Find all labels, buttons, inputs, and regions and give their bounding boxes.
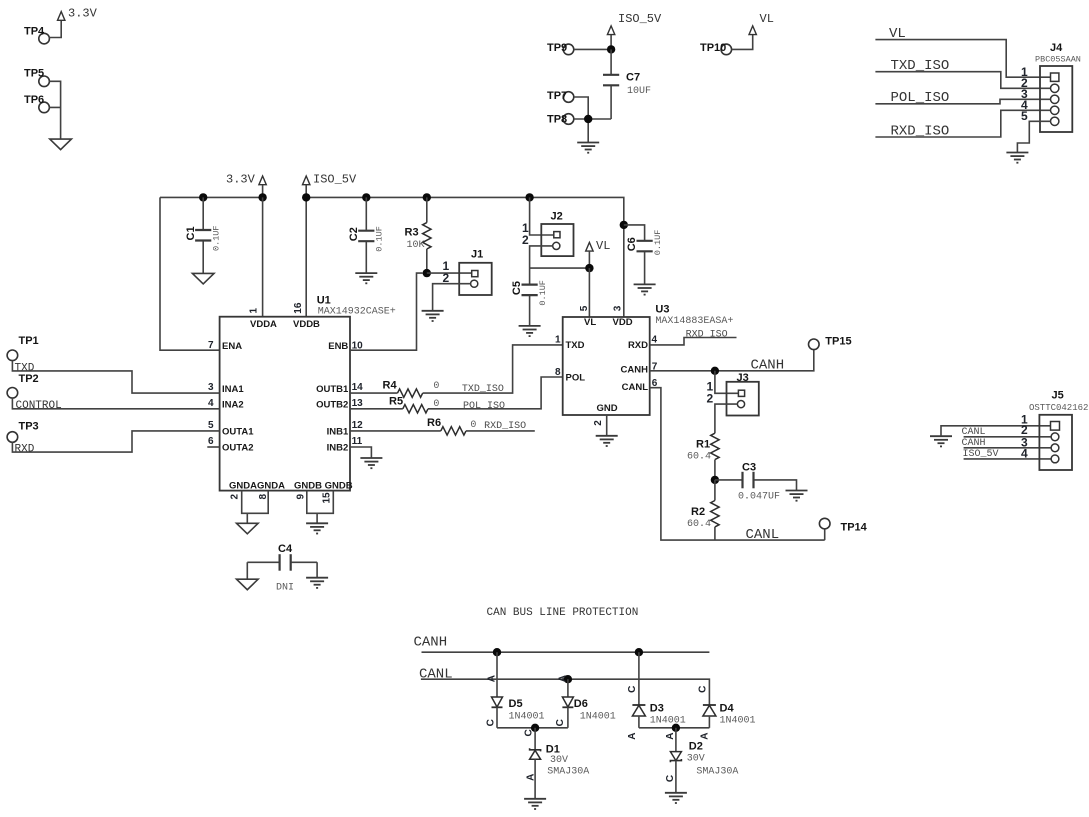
wire J5 pin 1 to ground (941, 426, 1051, 436)
svg-text:0.1UF: 0.1UF (653, 230, 663, 256)
svg-text:15: 15 (322, 492, 333, 504)
ground (GNDA) (237, 523, 259, 534)
svg-text:0: 0 (470, 420, 476, 431)
resistor R4 (350, 345, 563, 397)
wire TP7/TP8 to ground node (574, 97, 611, 143)
svg-text:D2: D2 (689, 740, 703, 752)
power symbol VL (U3) (586, 239, 611, 253)
junction dot D5/CANH (493, 648, 501, 656)
power symbol 3.3V (58, 7, 98, 21)
svg-text:INB1: INB1 (327, 426, 349, 437)
svg-text:POL: POL (566, 372, 586, 383)
svg-text:0.1UF: 0.1UF (212, 225, 222, 251)
svg-text:GNDAGNDA: GNDAGNDA (229, 480, 285, 491)
junction dot C5/J2 (525, 193, 533, 201)
wire TXD_ISO to J4 pin 2 (875, 72, 1050, 89)
svg-text:R5: R5 (389, 395, 403, 407)
svg-text:POL_ISO: POL_ISO (463, 401, 505, 412)
junction dot TP7/TP8 (584, 115, 592, 123)
power symbol ISO_5V (U1 rail) (303, 172, 358, 186)
svg-text:CANH: CANH (751, 358, 785, 374)
svg-text:CANH: CANH (414, 634, 448, 650)
svg-text:GND: GND (597, 403, 618, 414)
connector J3 (727, 372, 759, 416)
wire INB2 to ground (350, 447, 371, 458)
svg-text:0.1UF: 0.1UF (375, 226, 385, 252)
wire TP9 to ISO_5V node (574, 35, 611, 50)
svg-text:2: 2 (230, 494, 241, 500)
capacitor C4 (247, 543, 317, 594)
svg-text:VDDB: VDDB (293, 319, 320, 330)
svg-text:A: A (627, 732, 638, 739)
svg-text:R3: R3 (405, 226, 419, 238)
ground (J5 pin 1) (930, 436, 952, 446)
svg-text:8: 8 (258, 494, 269, 500)
ground (C5) (519, 326, 541, 336)
U1 pin 6 stub (207, 446, 219, 448)
capacitor C5 (511, 280, 548, 326)
wire CANL from U3 pin 6 (650, 388, 825, 540)
svg-text:J4: J4 (1050, 42, 1063, 54)
svg-text:16: 16 (293, 302, 304, 314)
ground (TP5/TP6) (50, 139, 72, 150)
wire GNDB pins to ground (307, 491, 334, 524)
svg-text:OSTTC042162: OSTTC042162 (1029, 403, 1088, 413)
TVS diode D1 (530, 728, 590, 799)
svg-text:VDDA: VDDA (250, 319, 277, 330)
ground (D1) (524, 799, 546, 809)
svg-text:D1: D1 (546, 744, 560, 756)
capacitor C1 (185, 197, 222, 273)
svg-text:GNDB GNDB: GNDB GNDB (294, 480, 353, 491)
resistor R1 (687, 433, 719, 480)
svg-text:INA2: INA2 (222, 400, 244, 411)
ground (GNDB) (306, 523, 328, 533)
svg-text:CANH: CANH (621, 364, 649, 375)
ground (J1) (422, 311, 444, 321)
svg-text:OUTB2: OUTB2 (316, 400, 348, 411)
svg-text:VL: VL (596, 239, 610, 253)
wire J5 pin 2 (964, 436, 1052, 438)
svg-text:TP8: TP8 (547, 114, 567, 126)
svg-text:RXD: RXD (628, 340, 648, 351)
svg-text:TXD: TXD (566, 340, 585, 351)
ground (U3 GND) (596, 436, 618, 446)
svg-text:0.047UF: 0.047UF (738, 491, 780, 502)
svg-text:5: 5 (579, 305, 590, 311)
svg-text:TP3: TP3 (19, 420, 39, 432)
test point TP10 (700, 42, 732, 55)
svg-text:A: A (699, 732, 710, 739)
resistor R6 (350, 417, 535, 435)
svg-text:3.3V: 3.3V (226, 172, 256, 186)
power symbol VL (top) (749, 12, 774, 35)
svg-text:6: 6 (208, 436, 214, 447)
svg-text:OUTA1: OUTA1 (222, 426, 254, 437)
svg-text:2: 2 (522, 233, 529, 247)
svg-text:RXD_ISO: RXD_ISO (484, 421, 526, 432)
capacitor C7 (603, 49, 651, 119)
diode D5 (492, 652, 545, 728)
svg-text:VL: VL (760, 12, 774, 26)
svg-text:C6: C6 (626, 237, 638, 251)
svg-text:1: 1 (555, 335, 561, 346)
svg-text:C5: C5 (511, 281, 523, 295)
svg-text:OUTB1: OUTB1 (316, 384, 349, 395)
resistor R3 (405, 197, 431, 273)
wire POL_ISO to J4 pin 3 (875, 99, 1050, 104)
wire CANL (protection) (421, 679, 710, 705)
wire RXD to OUTA1 (12, 431, 219, 452)
wire U3 GND to ground (606, 415, 608, 436)
svg-text:D4: D4 (720, 702, 735, 714)
svg-text:3.3V: 3.3V (68, 7, 98, 21)
test point TP3 (7, 420, 39, 442)
svg-text:J3: J3 (737, 372, 749, 384)
wire J2 pin 1 (530, 197, 554, 235)
svg-text:10K: 10K (407, 240, 425, 251)
svg-text:R2: R2 (691, 506, 705, 518)
connector J4 (1035, 42, 1081, 132)
svg-text:U1: U1 (317, 294, 331, 306)
svg-text:CANL: CANL (419, 667, 453, 683)
test point TP15 (809, 336, 852, 350)
svg-text:TP4: TP4 (24, 26, 45, 38)
wire TXD to INA1 (12, 361, 219, 394)
svg-text:C: C (665, 775, 676, 782)
wire J3 pin 1 (715, 371, 739, 394)
svg-text:TP1: TP1 (19, 335, 39, 347)
ground (C2) (355, 273, 377, 283)
junction dot D1 (531, 724, 539, 732)
wire CANH (protection) (422, 651, 710, 653)
svg-text:1N4001: 1N4001 (580, 712, 616, 723)
svg-text:A: A (525, 774, 536, 781)
svg-text:D6: D6 (574, 698, 588, 710)
power symbol ISO_5V (607, 12, 662, 35)
svg-text:TP5: TP5 (24, 68, 44, 80)
ground (J4) (1006, 153, 1028, 163)
wire J2 pin 2 to VL node and C5 (530, 246, 590, 284)
svg-text:1N4001: 1N4001 (650, 715, 686, 726)
svg-text:3: 3 (208, 382, 214, 393)
svg-text:R4: R4 (383, 380, 398, 392)
svg-text:R6: R6 (427, 417, 441, 429)
svg-text:CONTROL: CONTROL (16, 400, 62, 412)
ground (D2) (665, 793, 687, 803)
wire CANH (650, 350, 814, 371)
wire VDDA pin 1 (262, 197, 264, 316)
svg-text:RXD: RXD (15, 443, 35, 455)
test point TP14 (819, 518, 867, 533)
wire ENB to R3 node (350, 273, 423, 350)
junction dot CANH/J3 (711, 367, 719, 375)
svg-text:C: C (697, 686, 708, 693)
svg-text:CAN BUS LINE PROTECTION: CAN BUS LINE PROTECTION (487, 607, 639, 619)
wire 3.3V rail to ENA (160, 197, 220, 350)
svg-text:J2: J2 (551, 210, 563, 222)
svg-text:D5: D5 (509, 698, 523, 710)
test point TP1 (7, 335, 39, 361)
ground (C6) (634, 284, 656, 294)
wire J5 pin 4 (964, 458, 1052, 460)
svg-text:ENA: ENA (222, 341, 242, 352)
svg-text:INB2: INB2 (327, 442, 349, 453)
svg-text:J5: J5 (1052, 390, 1064, 402)
junction dot VDDB (302, 193, 310, 201)
ground (C7/TP8) (577, 143, 599, 153)
svg-text:TP10: TP10 (700, 42, 726, 54)
junction dot VDDA (258, 193, 266, 201)
svg-text:4: 4 (208, 398, 214, 409)
svg-text:CANL: CANL (746, 527, 780, 543)
svg-text:SMAJ30A: SMAJ30A (547, 766, 589, 777)
resistor R2 (687, 480, 719, 540)
svg-text:C: C (485, 719, 496, 726)
svg-text:0.1UF: 0.1UF (538, 280, 548, 306)
test point TP9 (547, 42, 574, 55)
svg-text:8: 8 (555, 367, 561, 378)
svg-text:14: 14 (352, 382, 364, 393)
junction dot C6 (620, 221, 628, 229)
svg-text:3: 3 (612, 305, 623, 311)
svg-text:MAX14883EASA+: MAX14883EASA+ (655, 316, 733, 327)
svg-text:RXD_ISO: RXD_ISO (686, 330, 728, 341)
svg-text:1N4001: 1N4001 (720, 715, 756, 726)
svg-text:1N4001: 1N4001 (509, 712, 545, 723)
svg-text:C1: C1 (185, 226, 197, 240)
svg-text:7: 7 (208, 340, 214, 351)
svg-text:9: 9 (296, 494, 307, 500)
svg-text:TXD_ISO: TXD_ISO (462, 384, 504, 395)
junction dot R3 (423, 193, 431, 201)
svg-text:60.4: 60.4 (687, 452, 711, 463)
test point TP8 (547, 114, 574, 126)
svg-text:0: 0 (433, 399, 439, 410)
wire VL arrow to node (588, 251, 590, 268)
wire D3/D4 anode rail (639, 727, 710, 729)
svg-text:13: 13 (352, 398, 364, 409)
connector J5 (1029, 390, 1088, 471)
capacitor C3 (715, 462, 797, 503)
capacitor C2 (348, 197, 385, 273)
test point TP7 (547, 90, 574, 102)
svg-text:DNI: DNI (276, 583, 294, 594)
svg-text:ISO_5V: ISO_5V (618, 12, 662, 26)
svg-text:D3: D3 (650, 702, 664, 714)
wire VL to J4 pin 1 (875, 40, 1050, 78)
test point TP6 (24, 94, 49, 113)
svg-text:2: 2 (443, 271, 450, 285)
svg-text:C7: C7 (626, 72, 640, 84)
connector J2 (541, 210, 573, 256)
svg-text:TP9: TP9 (547, 42, 567, 54)
wire ISO_5V rail (306, 185, 624, 317)
svg-text:ENB: ENB (328, 341, 348, 352)
svg-text:C3: C3 (742, 462, 756, 474)
wire CONTROL to INA2 (12, 398, 219, 409)
wire J1 pin 2 to ground (433, 284, 471, 311)
svg-text:TP6: TP6 (24, 94, 44, 106)
svg-text:5: 5 (208, 420, 214, 431)
svg-text:TP2: TP2 (19, 373, 39, 385)
wire J4 pin 5 to ground (1017, 121, 1050, 152)
connector J1 (459, 249, 492, 295)
ground (C4 right) (306, 578, 328, 588)
svg-text:INA1: INA1 (222, 384, 244, 395)
svg-text:MAX14932CASE+: MAX14932CASE+ (318, 306, 396, 317)
svg-text:C: C (627, 686, 638, 693)
wire RXD to RXD_ISO (650, 338, 737, 345)
svg-text:0: 0 (433, 381, 439, 392)
junction dot C2 (362, 193, 370, 201)
diode D3 (632, 652, 685, 728)
svg-text:2: 2 (593, 420, 604, 426)
wire 3.3V rail (160, 185, 263, 198)
svg-text:11: 11 (352, 436, 363, 447)
diode D6 (562, 679, 615, 728)
resistor R5 (350, 377, 563, 413)
junction dot C1 (199, 193, 207, 201)
svg-text:TP15: TP15 (825, 336, 851, 348)
svg-text:OUTA2: OUTA2 (222, 442, 254, 453)
ground (C4 left) (237, 579, 259, 590)
power symbol 3.3V (U1 rail) (226, 172, 266, 186)
test point TP4 (24, 26, 49, 44)
test point TP2 (7, 373, 39, 398)
ground (INB2) (360, 458, 382, 468)
svg-text:2: 2 (707, 392, 714, 406)
svg-text:4: 4 (652, 335, 658, 346)
svg-text:TP14: TP14 (841, 522, 868, 534)
ground (C1) (192, 273, 214, 284)
wire TP5/TP6 to ground (49, 81, 60, 139)
svg-text:C: C (523, 729, 534, 736)
diode D4 (703, 702, 756, 728)
wire J3 pin 2 to R1 (715, 404, 738, 433)
wire RXD_ISO to J4 pin 4 (875, 110, 1050, 137)
svg-text:A: A (557, 675, 568, 682)
svg-text:60.4: 60.4 (687, 519, 711, 530)
wire VL to U3 pin 5 (588, 268, 590, 317)
svg-text:12: 12 (352, 420, 364, 431)
svg-text:C2: C2 (348, 227, 360, 241)
capacitor C6 (624, 225, 663, 285)
svg-text:30V: 30V (687, 753, 705, 764)
wire TP10 to VL (732, 35, 753, 50)
ground (C3) (786, 491, 808, 501)
junction dot D6/CANL (564, 675, 572, 683)
svg-text:ISO_5V: ISO_5V (313, 172, 357, 186)
svg-text:PBC05SAAN: PBC05SAAN (1035, 55, 1081, 65)
svg-text:C4: C4 (278, 543, 293, 555)
svg-text:A: A (665, 732, 676, 739)
junction dot TP9/C7 node (607, 45, 615, 53)
junction dot R3/J1/ENB (423, 269, 431, 277)
svg-text:SMAJ30A: SMAJ30A (696, 766, 738, 777)
svg-text:10UF: 10UF (627, 86, 651, 97)
svg-text:30V: 30V (550, 755, 568, 766)
wire J1 pin 1 (427, 272, 472, 274)
svg-text:J1: J1 (471, 249, 483, 261)
transceiver U3 body (563, 317, 650, 415)
svg-text:TP7: TP7 (547, 90, 567, 102)
junction dot D3/CANH (635, 648, 643, 656)
TVS diode D2 (670, 728, 738, 793)
wire D5/D6 cathode rail (497, 727, 568, 729)
wire TP4 to 3.3V (49, 20, 61, 37)
junction dot D2 (672, 724, 680, 732)
test point TP5 (24, 68, 49, 87)
svg-text:1: 1 (249, 308, 260, 314)
wire J5 pin 3 (964, 447, 1052, 449)
svg-text:5: 5 (1021, 109, 1028, 123)
svg-text:VL: VL (584, 317, 596, 328)
op-amp U1 body (220, 317, 350, 491)
svg-text:VDD: VDD (613, 317, 633, 328)
svg-text:C: C (555, 719, 566, 726)
wire GNDA pins to ground (242, 491, 269, 524)
junction dot VL (585, 264, 593, 272)
junction dot R1/R2/C3 (711, 476, 719, 484)
svg-text:A: A (487, 675, 498, 682)
svg-text:R1: R1 (696, 439, 710, 451)
svg-text:U3: U3 (655, 304, 669, 316)
svg-text:4: 4 (1021, 447, 1028, 461)
svg-text:CANL: CANL (622, 382, 649, 393)
